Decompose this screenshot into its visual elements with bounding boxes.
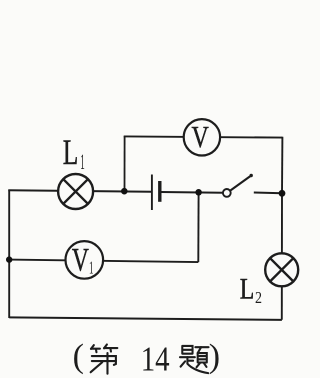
svg-text:): ) [209,338,220,375]
caption (第 14 题) [73,338,220,378]
svg-text:V: V [192,119,210,154]
wire main row left (through L1 to battery) [8,190,151,192]
hanzi di [91,345,118,374]
junction right [279,190,286,197]
wire V1 branch horizontal [9,260,198,263]
wire switch to right junction [254,192,282,195]
voltmeter V [184,119,220,156]
battery [152,175,160,211]
wire left vertical [8,190,10,318]
svg-text:14: 14 [141,339,170,378]
wire V1 branch vertical [197,192,199,262]
wire top branch vertical left [124,136,126,191]
wire top branch horizontal [124,136,283,137]
svg-text:1: 1 [80,149,85,174]
lamp L2 [265,253,298,286]
wire L2 branch vertical [281,193,283,319]
wire top branch vertical right [281,137,283,194]
svg-text:L: L [63,132,79,172]
junction V1-branch top [195,189,202,196]
label L2 [240,273,262,307]
wire battery to switch [161,191,223,194]
svg-text:V: V [72,243,89,279]
switch S [223,174,253,197]
lamp L1 [58,174,93,209]
junction V1-branch left [6,256,12,262]
voltmeter V1 [66,241,104,279]
hanzi ti [180,346,209,373]
svg-text:(: ( [73,338,84,375]
svg-text:L: L [240,273,255,306]
svg-text:2: 2 [255,288,262,307]
label L1 [63,132,85,174]
svg-text:1: 1 [89,258,94,278]
wire bottom [9,317,282,320]
junction top-branch left [121,188,128,195]
